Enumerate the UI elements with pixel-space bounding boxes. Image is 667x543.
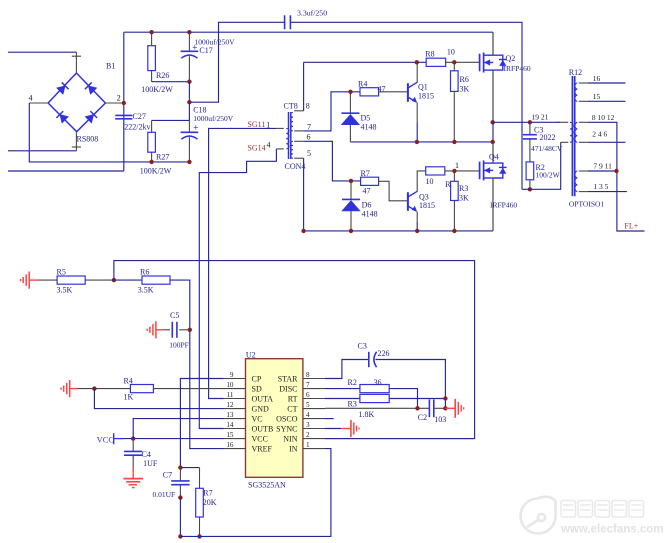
svg-text:3.5K: 3.5K xyxy=(57,286,73,295)
svg-text:3K: 3K xyxy=(459,194,469,203)
svg-text:5: 5 xyxy=(307,149,311,158)
svg-text:3.5K: 3.5K xyxy=(138,286,154,295)
junction D6 top xyxy=(349,179,353,183)
junction Q1 collector xyxy=(415,60,419,64)
svg-text:9: 9 xyxy=(230,371,234,379)
svg-text:8: 8 xyxy=(306,371,310,379)
svg-text:2: 2 xyxy=(117,93,121,102)
svg-text:SYNC: SYNC xyxy=(276,424,297,433)
wire node 4 to lower rail xyxy=(29,103,189,162)
wire bridge - terminal stub xyxy=(72,132,81,151)
svg-text:CT: CT xyxy=(287,405,297,414)
svg-text:U2: U2 xyxy=(246,350,256,359)
svg-text:R12: R12 xyxy=(569,68,582,77)
svg-text:2: 2 xyxy=(306,431,310,439)
svg-text:10: 10 xyxy=(426,177,434,186)
svg-text:15: 15 xyxy=(593,92,601,101)
svg-text:36: 36 xyxy=(374,378,382,387)
R12 secondary winding 7-11 xyxy=(575,171,578,192)
transformer R12 core xyxy=(572,76,574,196)
wire VC pin to VCC node xyxy=(133,419,223,439)
pin 10 lead xyxy=(224,388,246,390)
svg-text:R3: R3 xyxy=(459,184,468,193)
pin 15 lead xyxy=(224,438,246,440)
svg-text:47: 47 xyxy=(363,187,371,196)
junction RT C3 xyxy=(443,396,447,400)
capacitor C3 226 xyxy=(369,352,377,367)
svg-text:+: + xyxy=(193,123,198,133)
wire pin7 stub xyxy=(294,130,303,132)
svg-text:VC: VC xyxy=(252,415,263,424)
junction node 2 xyxy=(122,101,126,105)
junction R3 top xyxy=(452,169,456,173)
wire Q4 drain xyxy=(492,142,494,163)
capacitor C5 100PF xyxy=(164,322,190,338)
junction Q3 emitter xyxy=(415,229,419,233)
junction R6 top xyxy=(452,60,456,64)
junction CT ground xyxy=(443,406,447,410)
wire Q2 drain from + rail xyxy=(492,32,494,55)
pin 1 lead xyxy=(303,448,325,450)
svg-text:1UF: 1UF xyxy=(143,459,158,468)
svg-text:8 10 12: 8 10 12 xyxy=(592,113,615,122)
svg-text:12: 12 xyxy=(226,401,234,409)
resistor R5 3.5K xyxy=(38,276,114,284)
wire CP pin to compensation xyxy=(180,379,223,468)
wire NIN feedback xyxy=(325,438,475,440)
wire mid rail R26-C17 xyxy=(152,81,190,83)
wire 10 to Q4 gate xyxy=(445,170,480,172)
pin 8 lead xyxy=(303,378,325,380)
svg-text:VCC: VCC xyxy=(252,435,268,444)
svg-text:VCC: VCC xyxy=(97,435,115,445)
svg-text:C7: C7 xyxy=(163,471,172,480)
resistor R4 47 xyxy=(360,88,379,96)
junction output node xyxy=(491,120,495,124)
svg-text:SG11: SG11 xyxy=(247,120,265,129)
capacitor C18 xyxy=(181,120,199,161)
wire pin5 down to lower bus xyxy=(303,158,305,231)
wire R7 to Q3 base xyxy=(379,181,408,201)
CT8 primary winding pins 1-4 xyxy=(286,128,289,149)
svg-text:14: 14 xyxy=(226,421,234,429)
capacitor C3 2022 xyxy=(523,122,537,162)
wire sec pins 7 9 11 xyxy=(579,170,617,172)
junction R6 bottom xyxy=(452,140,456,144)
junction C3 top xyxy=(528,120,532,124)
svg-text:222/2kv: 222/2kv xyxy=(124,123,150,132)
svg-text:3K: 3K xyxy=(460,84,470,93)
junction C17 top xyxy=(187,30,191,34)
junction R7 bottom xyxy=(197,534,201,538)
pin 3 lead xyxy=(303,428,325,430)
svg-text:Q1: Q1 xyxy=(418,83,428,92)
svg-text:11: 11 xyxy=(227,391,234,399)
wire sec pins 1 3 5 xyxy=(579,191,627,193)
svg-text:7: 7 xyxy=(306,381,310,389)
wire R6 down to C5 and VREF xyxy=(170,280,224,449)
svg-text:6: 6 xyxy=(307,132,311,141)
svg-text:4148: 4148 xyxy=(361,123,377,132)
wire Q2 source to output node xyxy=(492,70,494,122)
watermark logo xyxy=(521,497,556,534)
junction R26 top xyxy=(149,30,153,34)
resistor R2 100/2W xyxy=(526,162,534,189)
svg-text:0.01UF: 0.01UF xyxy=(153,490,176,499)
svg-text:C2: C2 xyxy=(418,413,427,422)
R12 primary winding 19-21 xyxy=(570,122,573,142)
svg-text:100/2W: 100/2W xyxy=(536,171,561,180)
wire R3 right xyxy=(389,398,445,400)
transistor Q3 1815 xyxy=(408,171,426,231)
svg-text:4148: 4148 xyxy=(362,209,378,218)
ground CT xyxy=(445,399,463,418)
bridge rectifier B1 RS808 xyxy=(48,73,105,132)
svg-text:OPTOISO1: OPTOISO1 xyxy=(569,200,605,209)
capacitor C17 xyxy=(181,32,199,81)
ground SYNC xyxy=(341,420,359,437)
junction D5 top xyxy=(348,90,352,94)
svg-text:R6: R6 xyxy=(460,75,469,84)
junction lower bus pin5 xyxy=(301,229,305,233)
wire lower bus xyxy=(304,230,493,232)
svg-text:R2: R2 xyxy=(348,378,357,387)
svg-text:www.elecfans.com: www.elecfans.com xyxy=(560,524,663,536)
diode D6 4148 xyxy=(342,181,360,231)
R12 secondary winding 16-15 xyxy=(575,83,578,101)
svg-text:1000uf/250V: 1000uf/250V xyxy=(193,114,234,123)
wire SYNC to ground xyxy=(325,428,341,430)
svg-text:C3: C3 xyxy=(358,341,367,350)
svg-text:R6: R6 xyxy=(140,268,149,277)
capacitor 3.3uf/250 xyxy=(284,15,286,29)
pin 4 lead xyxy=(303,418,325,420)
transistor Q1 1815 xyxy=(408,62,417,142)
svg-text:3.3uf/250: 3.3uf/250 xyxy=(297,9,327,18)
svg-text:OSCO: OSCO xyxy=(276,415,298,424)
svg-text:1815: 1815 xyxy=(418,92,434,101)
wire node 2 stub xyxy=(105,102,121,104)
capacitor C2 103 xyxy=(429,399,445,417)
wire pin1 SG11 to OUTA xyxy=(209,128,284,398)
resistor R2 36 xyxy=(325,385,389,393)
svg-text:RT: RT xyxy=(288,394,298,403)
capacitor C27 xyxy=(115,114,132,116)
svg-text:IRFP460: IRFP460 xyxy=(490,201,517,210)
wire VCC rail to pin15 xyxy=(123,438,224,440)
svg-text:1 3 5: 1 3 5 xyxy=(593,182,608,191)
wire comp node to R7 xyxy=(180,468,199,489)
svg-text:Q2: Q2 xyxy=(506,54,516,63)
wire coupling cap to output node xyxy=(291,22,522,189)
svg-text:D5: D5 xyxy=(361,114,371,123)
svg-text:Q4: Q4 xyxy=(489,152,499,161)
wire + rail top xyxy=(124,31,493,33)
transformer CT8 core xyxy=(289,112,291,159)
svg-text:B1: B1 xyxy=(106,62,115,71)
wire mid node to coupling cap xyxy=(189,22,284,102)
wire snubber bottom to primary xyxy=(522,142,568,189)
junction C17 bottom xyxy=(187,80,191,84)
wire output node to primary xyxy=(493,121,560,123)
pin 14 lead xyxy=(224,428,246,430)
pin 16 lead xyxy=(224,448,246,450)
svg-text:1.8K: 1.8K xyxy=(359,410,375,419)
junction R3 bottom xyxy=(452,229,456,233)
svg-text:FL+: FL+ xyxy=(624,222,638,231)
capacitor C7 0.01UF xyxy=(171,468,189,498)
svg-text:R27: R27 xyxy=(156,153,169,162)
junction C7 bottom xyxy=(178,495,182,499)
wire pin6 stub xyxy=(294,140,303,142)
svg-text:CON4: CON4 xyxy=(285,162,306,171)
wire pin4 SG14 to OUTB xyxy=(199,149,283,429)
wire lower-left line xyxy=(8,170,124,172)
wire feedback loop xyxy=(114,261,475,439)
svg-text:C17: C17 xyxy=(199,46,212,55)
svg-text:R7: R7 xyxy=(203,489,212,498)
svg-text:R3: R3 xyxy=(348,400,357,409)
watermark text xyxy=(561,501,644,518)
svg-text:4: 4 xyxy=(306,411,310,419)
wire Q4 source to lower bus xyxy=(492,178,494,231)
svg-text:100K/2W: 100K/2W xyxy=(141,85,173,94)
svg-text:16: 16 xyxy=(593,74,601,83)
wire node 2 vertical xyxy=(123,32,125,171)
svg-text:RS808: RS808 xyxy=(77,135,99,144)
ground R4 xyxy=(61,380,77,397)
svg-text:NIN: NIN xyxy=(283,435,297,444)
svg-text:R4: R4 xyxy=(358,80,367,89)
resistor R6 3.5K xyxy=(114,276,170,284)
svg-text:226: 226 xyxy=(378,349,390,358)
ground earth C4 xyxy=(123,479,143,488)
R12 secondary winding 8-12 xyxy=(575,122,578,142)
mosfet Q4 IRFP460 xyxy=(479,162,481,180)
svg-text:13: 13 xyxy=(226,411,234,419)
wire R8 line xyxy=(304,61,427,63)
svg-text:R5: R5 xyxy=(57,268,66,277)
resistor R7 20K xyxy=(196,488,204,536)
wire output node to Q4 drain xyxy=(492,122,494,142)
svg-text:STAR: STAR xyxy=(278,374,298,383)
resistor R26 xyxy=(148,32,156,81)
wire pin8 to R8 line xyxy=(303,62,305,111)
svg-text:SG3525AN: SG3525AN xyxy=(248,481,286,490)
wire pin6 to R7 line xyxy=(304,141,361,181)
junction upper bus right xyxy=(491,140,495,144)
svg-text:2022: 2022 xyxy=(540,133,556,142)
ground C5 xyxy=(147,321,163,338)
svg-text:VREF: VREF xyxy=(252,445,273,454)
wire pin5 stub xyxy=(294,157,303,159)
wire AC input bottom xyxy=(8,150,76,152)
resistor 10 Q3 collector xyxy=(426,167,445,175)
wire OSC out stub xyxy=(325,418,334,420)
junction C18 bottom xyxy=(187,160,191,164)
svg-text:1: 1 xyxy=(306,441,310,449)
wire bottom rail to IN pin xyxy=(180,449,331,537)
svg-text:1815: 1815 xyxy=(419,201,435,210)
svg-text:1K: 1K xyxy=(124,393,134,402)
svg-text:100K/2W: 100K/2W xyxy=(140,167,172,176)
svg-text:SG14: SG14 xyxy=(247,144,265,153)
resistor R3 1.8K xyxy=(325,394,389,402)
pin 9 lead xyxy=(224,378,246,380)
junction C5 xyxy=(188,328,192,332)
pin 11 lead xyxy=(224,398,246,400)
svg-text:CT8: CT8 xyxy=(284,102,298,111)
wire R8 to Q2 gate xyxy=(446,61,480,63)
wire bridge + terminal stub xyxy=(72,52,81,73)
resistor R8 xyxy=(426,58,445,66)
svg-text:19 21: 19 21 xyxy=(532,113,549,122)
CT8 secondary winding pins 8-7 xyxy=(291,113,293,131)
resistor R7 47 xyxy=(361,177,379,185)
svg-text:100PF: 100PF xyxy=(169,341,189,350)
svg-text:3: 3 xyxy=(306,421,310,429)
svg-text:SD: SD xyxy=(252,385,262,394)
wire soft-start to C3 xyxy=(325,360,368,379)
svg-text:1: 1 xyxy=(455,161,459,170)
junction rail left xyxy=(178,534,182,538)
CT8 secondary winding pins 6-5 xyxy=(291,141,293,158)
wire upper bus xyxy=(350,141,493,143)
svg-text:DISC: DISC xyxy=(279,385,297,394)
wire GND pin to R4 node xyxy=(94,389,223,409)
junction VCC node xyxy=(131,436,135,440)
resistor R3 3K xyxy=(451,171,459,231)
svg-text:OUTB: OUTB xyxy=(252,424,274,433)
pin 13 lead xyxy=(224,418,246,420)
wire CT line xyxy=(325,407,429,409)
svg-text:103: 103 xyxy=(434,415,446,424)
resistor R27 xyxy=(148,120,156,161)
capacitor C4 1UF xyxy=(124,439,142,479)
junction R4 ground node xyxy=(92,386,96,390)
ground R5 xyxy=(21,272,38,289)
svg-text:R4: R4 xyxy=(124,376,133,385)
svg-text:CP: CP xyxy=(252,374,262,383)
pin 7 lead xyxy=(303,388,325,390)
wire pin7 to R4 line xyxy=(304,92,360,131)
wire sec pin15 xyxy=(579,100,626,102)
svg-text:C5: C5 xyxy=(170,311,179,320)
wire primary top stub xyxy=(556,121,568,123)
svg-text:1000uf/250V: 1000uf/250V xyxy=(195,38,236,47)
junction CT R2 xyxy=(415,406,419,410)
svg-text:R26: R26 xyxy=(156,71,169,80)
mosfet Q2 IRFP460 xyxy=(479,54,481,72)
svg-text:OUTA: OUTA xyxy=(252,394,274,403)
svg-text:IN: IN xyxy=(289,445,298,454)
junction 7 9 11 to FL+ xyxy=(614,169,618,173)
resistor R4 1K xyxy=(78,385,224,393)
wire C7 bottom to rail xyxy=(179,498,181,537)
junction feedback divider xyxy=(112,278,116,282)
svg-text:C27: C27 xyxy=(133,112,146,121)
svg-text:2 4 6: 2 4 6 xyxy=(592,129,607,138)
junction DC mid node xyxy=(187,100,191,104)
junction Q1 emitter xyxy=(415,140,419,144)
svg-text:4: 4 xyxy=(267,140,271,149)
wire C3 to RT node xyxy=(375,360,445,409)
wire R2 to CT node xyxy=(389,389,417,409)
port VCC xyxy=(97,433,123,444)
wire AC input top xyxy=(8,51,76,53)
pin 12 lead xyxy=(224,408,246,410)
IC U2 SG3525AN body xyxy=(246,359,303,478)
wire sec pin16 xyxy=(579,82,626,84)
pin 5 lead xyxy=(303,408,325,410)
svg-text:D6: D6 xyxy=(362,201,372,210)
svg-text:20K: 20K xyxy=(203,498,217,507)
junction compensation top xyxy=(178,465,182,469)
junction snubber bottom xyxy=(528,187,532,191)
svg-text:10: 10 xyxy=(226,381,234,389)
svg-text:7 9 11: 7 9 11 xyxy=(593,161,612,170)
wire pin8 stub xyxy=(294,110,303,112)
svg-text:GND: GND xyxy=(252,405,270,414)
svg-text:R8: R8 xyxy=(425,50,434,59)
svg-text:6: 6 xyxy=(306,391,310,399)
wire R4 to Q1 base xyxy=(379,91,408,93)
junction D6 bottom xyxy=(349,229,353,233)
svg-text:16: 16 xyxy=(226,441,234,449)
wire R27-C18 rail xyxy=(152,119,190,121)
svg-text:7: 7 xyxy=(307,122,311,131)
junction R27 bottom xyxy=(149,160,153,164)
resistor R6 3K xyxy=(451,62,459,142)
wire sec pins 2 4 6 xyxy=(579,141,626,143)
wire C17-C18 link xyxy=(188,82,190,121)
svg-text:15: 15 xyxy=(226,431,234,439)
pin 2 lead xyxy=(303,438,325,440)
svg-text:R7: R7 xyxy=(361,169,370,178)
svg-text:8: 8 xyxy=(306,102,310,111)
svg-text:471/48CV: 471/48CV xyxy=(531,144,563,153)
svg-text:4: 4 xyxy=(29,93,33,102)
svg-text:5: 5 xyxy=(306,401,310,409)
pin 6 lead xyxy=(303,398,325,400)
svg-text:IRFP460: IRFP460 xyxy=(504,64,531,73)
svg-text:10: 10 xyxy=(447,48,455,57)
svg-text:C4: C4 xyxy=(142,450,151,459)
wire sec pins 8 10 12 to FL+ xyxy=(579,122,645,231)
diode D5 4148 xyxy=(341,92,359,142)
